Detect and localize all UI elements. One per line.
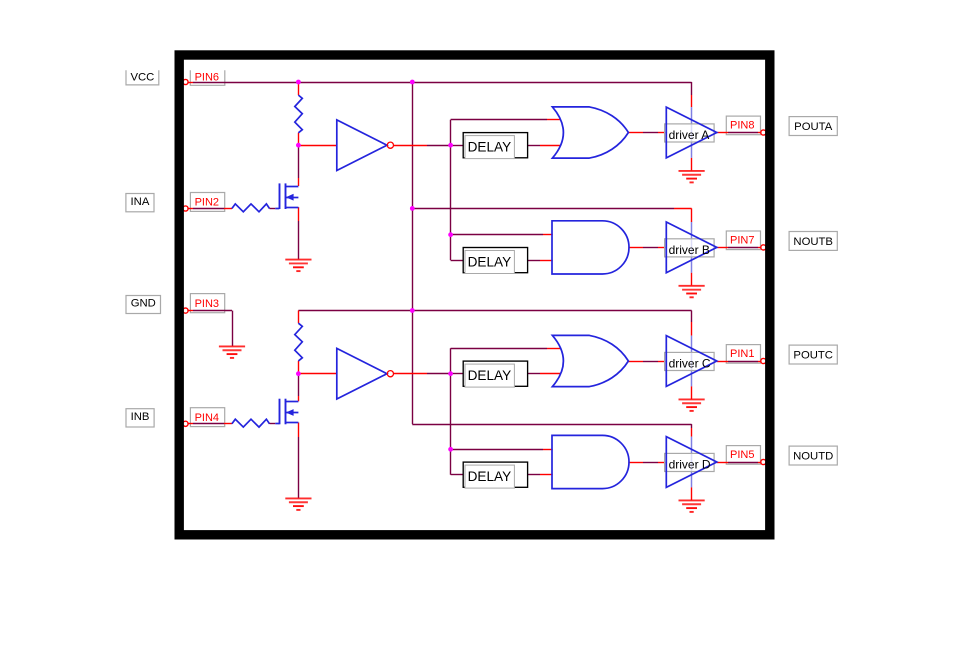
svg-text:driver C: driver C [669, 357, 711, 371]
svg-text:PIN1: PIN1 [730, 348, 754, 360]
svg-text:NOUTB: NOUTB [793, 236, 833, 248]
svg-text:PIN5: PIN5 [730, 449, 754, 461]
svg-text:DELAY: DELAY [468, 469, 512, 484]
svg-text:VCC: VCC [130, 71, 154, 83]
svg-text:driver B: driver B [669, 243, 710, 257]
svg-text:POUTA: POUTA [794, 121, 833, 133]
svg-text:PIN8: PIN8 [730, 120, 754, 132]
svg-text:NOUTD: NOUTD [793, 451, 833, 463]
svg-text:DELAY: DELAY [468, 254, 512, 269]
svg-text:PIN7: PIN7 [730, 235, 754, 247]
svg-text:POUTC: POUTC [793, 350, 833, 362]
svg-text:PIN4: PIN4 [195, 412, 219, 424]
svg-text:PIN6: PIN6 [195, 71, 219, 83]
svg-text:GND: GND [131, 298, 156, 310]
svg-text:PIN3: PIN3 [195, 298, 219, 310]
svg-text:INB: INB [131, 411, 150, 423]
svg-text:DELAY: DELAY [468, 368, 512, 383]
svg-text:DELAY: DELAY [468, 139, 512, 154]
svg-text:PIN2: PIN2 [195, 197, 219, 209]
svg-text:driver A: driver A [669, 128, 710, 142]
svg-text:driver D: driver D [669, 458, 711, 472]
svg-text:INA: INA [131, 196, 150, 208]
